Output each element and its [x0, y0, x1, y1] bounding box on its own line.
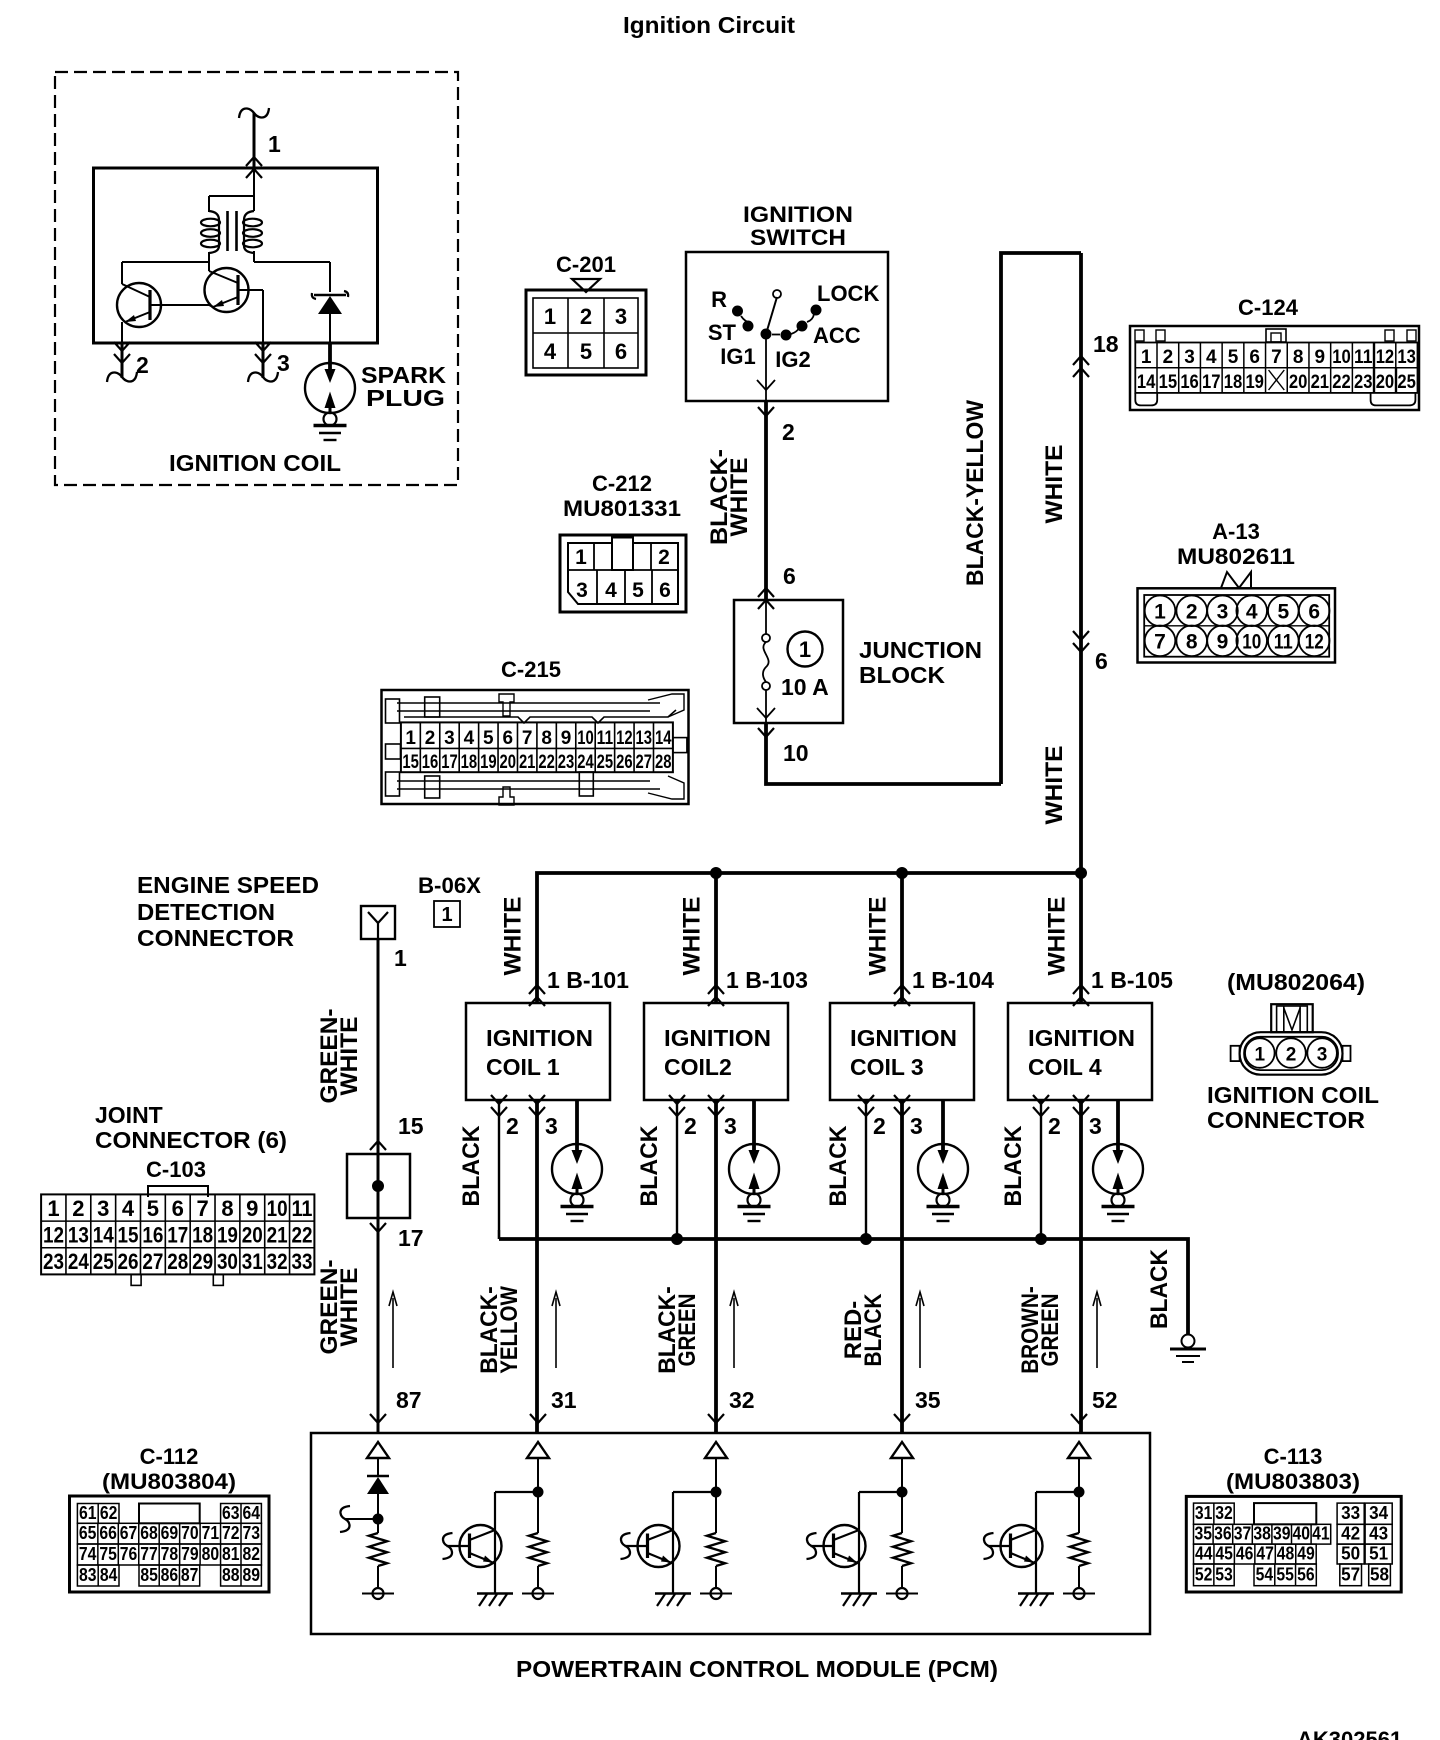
svg-text:40: 40 — [1293, 1523, 1311, 1544]
svg-text:84: 84 — [100, 1564, 118, 1585]
svg-text:12: 12 — [1305, 631, 1324, 654]
svg-text:14: 14 — [655, 728, 672, 749]
svg-text:82: 82 — [242, 1543, 260, 1564]
wire collector node bus — [122, 261, 209, 263]
svg-text:IGNITION COIL: IGNITION COIL — [169, 450, 341, 476]
svg-text:21: 21 — [519, 752, 536, 773]
C-103 bottom tabs — [131, 1274, 141, 1285]
svg-text:1 B-104: 1 B-104 — [912, 967, 994, 993]
svg-text:8: 8 — [1293, 347, 1304, 368]
transformer secondary winding — [244, 211, 254, 220]
C-215 top latch detail — [397, 702, 660, 704]
svg-text:15: 15 — [402, 752, 419, 773]
switch contact IG2 — [781, 330, 791, 340]
svg-text:33: 33 — [291, 1249, 312, 1274]
svg-text:C-103: C-103 — [146, 1157, 206, 1182]
junction dot bus/coil4 — [1076, 868, 1087, 879]
A-13 pointer M symbol — [1221, 572, 1251, 588]
wire primary bottom to collector node — [208, 252, 210, 271]
ignition coil inner box — [94, 168, 378, 343]
PCM terminal circle (35) — [901, 1566, 903, 1588]
svg-text:10: 10 — [577, 728, 594, 749]
spark plug for COIL 4 — [1116, 1100, 1120, 1150]
svg-text:77: 77 — [140, 1543, 158, 1564]
PCM diode (87 branch) — [377, 1458, 379, 1477]
svg-text:87: 87 — [181, 1564, 199, 1585]
svg-text:AK302561: AK302561 — [1297, 1727, 1402, 1740]
svg-text:16: 16 — [142, 1223, 163, 1248]
svg-text:31: 31 — [551, 1387, 577, 1413]
svg-text:BLACK: BLACK — [825, 1125, 852, 1207]
svg-text:52: 52 — [1092, 1387, 1118, 1413]
svg-text:67: 67 — [120, 1522, 138, 1543]
ignition coil detail dashed enclosure — [55, 72, 458, 485]
svg-text:12: 12 — [616, 728, 633, 749]
wire WHITE feed down right side — [1079, 253, 1083, 873]
svg-text:51: 51 — [1369, 1543, 1388, 1564]
svg-text:18: 18 — [1224, 372, 1243, 393]
switch contact LOCK — [811, 305, 821, 315]
svg-text:61: 61 — [79, 1502, 97, 1523]
svg-text:3: 3 — [1317, 1045, 1328, 1066]
svg-text:C-124: C-124 — [1238, 295, 1299, 320]
PCM terminal circle (31) — [537, 1566, 539, 1588]
flow arrow (35) — [919, 1298, 921, 1368]
svg-text:5: 5 — [580, 339, 592, 364]
svg-text:2: 2 — [1186, 601, 1198, 624]
svg-text:2: 2 — [72, 1196, 84, 1221]
svg-text:2: 2 — [658, 546, 670, 569]
svg-text:80: 80 — [202, 1543, 220, 1564]
svg-text:4: 4 — [605, 579, 617, 602]
svg-text:3: 3 — [545, 1113, 558, 1139]
svg-text:WHITE: WHITE — [1044, 897, 1071, 976]
svg-text:54: 54 — [1256, 1563, 1274, 1584]
svg-text:1: 1 — [1141, 347, 1152, 368]
svg-text:WHITE: WHITE — [336, 1017, 363, 1096]
svg-text:WHITE: WHITE — [1041, 746, 1068, 825]
Q1 base line from Q2 emitter — [150, 304, 209, 306]
svg-text:11: 11 — [597, 728, 614, 749]
wire junction block to black-yellow riser — [766, 723, 1001, 784]
PCM terminal circle (87) — [377, 1566, 379, 1588]
joint connector exit chevron — [370, 1223, 386, 1232]
pin 1 chevrons — [246, 157, 262, 166]
svg-text:43: 43 — [1369, 1523, 1388, 1544]
svg-text:31: 31 — [1195, 1502, 1213, 1523]
svg-text:IGNITION: IGNITION — [664, 1025, 771, 1051]
svg-text:1 B-105: 1 B-105 — [1091, 967, 1173, 993]
Q2 base line to pin 3 — [238, 289, 263, 291]
svg-text:3: 3 — [1217, 601, 1229, 624]
transistor Q1 — [117, 283, 161, 327]
svg-text:23: 23 — [43, 1249, 64, 1274]
svg-text:86: 86 — [161, 1564, 179, 1585]
svg-text:56: 56 — [1297, 1563, 1315, 1584]
svg-text:8: 8 — [221, 1196, 233, 1221]
PCM entry chevron (87) — [370, 1414, 386, 1423]
C-215 side tabs — [386, 744, 401, 759]
C-124 pin 18 inline connector chevrons — [1073, 356, 1089, 365]
PCM input triangle (32) — [705, 1442, 727, 1458]
ignition coil connector body — [1240, 1032, 1343, 1075]
COIL 1 pin 2 wire (BLACK) — [498, 1100, 500, 1239]
svg-text:IGNITION: IGNITION — [743, 202, 853, 227]
svg-text:76: 76 — [120, 1543, 138, 1564]
svg-text:32: 32 — [267, 1249, 288, 1274]
svg-text:COIL 4: COIL 4 — [1028, 1054, 1102, 1080]
engine speed detection connector symbol — [361, 906, 395, 939]
svg-text:53: 53 — [1215, 1563, 1233, 1584]
svg-text:6: 6 — [615, 339, 627, 364]
junction block box — [734, 600, 843, 723]
PCM terminal circle (32) — [715, 1566, 717, 1588]
svg-text:BLACK-YELLOW: BLACK-YELLOW — [962, 400, 989, 586]
svg-text:10: 10 — [1242, 631, 1261, 654]
wire GREEN-WHITE from engine speed connector — [377, 939, 380, 1154]
svg-text:2: 2 — [782, 419, 795, 445]
junction dot (31 branch) — [533, 1487, 543, 1497]
transistor (31 branch) — [460, 1525, 502, 1567]
pin 3 lead — [262, 343, 265, 378]
svg-text:ACC: ACC — [813, 323, 861, 348]
svg-text:5: 5 — [483, 728, 494, 749]
svg-text:50: 50 — [1341, 1543, 1360, 1564]
svg-text:41: 41 — [1312, 1523, 1330, 1544]
svg-text:27: 27 — [142, 1249, 163, 1274]
flow arrow (87) — [392, 1298, 394, 1368]
svg-text:IGNITION COIL: IGNITION COIL — [1207, 1082, 1379, 1108]
svg-text:3: 3 — [576, 579, 588, 602]
svg-text:9: 9 — [561, 728, 572, 749]
B-06X box 1 — [434, 901, 460, 927]
A-13 pin 6 inline connector chevrons — [1073, 631, 1089, 640]
junction dot coil3 black — [861, 1234, 872, 1245]
svg-text:COIL2: COIL2 — [664, 1054, 732, 1080]
svg-text:BLACK: BLACK — [1000, 1125, 1027, 1207]
COIL 4 pin 3 wire — [1079, 1100, 1083, 1433]
junction dot bus/coil3 — [897, 868, 908, 879]
svg-text:85: 85 — [140, 1564, 158, 1585]
spark plug for COIL2 — [752, 1100, 756, 1150]
resistor (52 branch) — [1070, 1533, 1088, 1566]
svg-text:(MU803804): (MU803804) — [102, 1469, 236, 1494]
svg-text:5: 5 — [147, 1196, 159, 1221]
svg-text:IG1: IG1 — [720, 344, 755, 369]
svg-text:18: 18 — [1093, 331, 1119, 357]
svg-text:31: 31 — [242, 1249, 263, 1274]
svg-text:17: 17 — [441, 752, 458, 773]
svg-text:20: 20 — [1376, 372, 1395, 393]
svg-text:6: 6 — [172, 1196, 184, 1221]
fuse 1 10A — [765, 600, 767, 634]
svg-text:2: 2 — [506, 1113, 519, 1139]
switch contact ST — [743, 321, 753, 331]
zener diode — [312, 293, 316, 299]
svg-text:23: 23 — [558, 752, 575, 773]
svg-text:3: 3 — [97, 1196, 109, 1221]
ignition coil box COIL 3 — [894, 985, 910, 994]
svg-text:1: 1 — [1255, 1045, 1266, 1066]
svg-text:25: 25 — [1397, 372, 1416, 393]
svg-text:A-13: A-13 — [1212, 519, 1260, 544]
svg-text:62: 62 — [100, 1502, 118, 1523]
svg-text:BLACK: BLACK — [860, 1293, 887, 1367]
svg-text:BLOCK: BLOCK — [859, 662, 945, 688]
svg-text:3: 3 — [277, 350, 290, 376]
COIL 4 pin 2 wire (BLACK) — [1040, 1100, 1042, 1239]
svg-text:19: 19 — [480, 752, 497, 773]
svg-text:3: 3 — [615, 304, 627, 329]
resistor (31 branch) — [529, 1533, 547, 1566]
wire BLACK ground bus — [499, 1239, 1188, 1334]
svg-text:38: 38 — [1253, 1523, 1271, 1544]
connector C-212 body — [560, 535, 686, 612]
switch contact ACC — [797, 321, 807, 331]
svg-text:2: 2 — [684, 1113, 697, 1139]
svg-text:65: 65 — [79, 1522, 97, 1543]
joint connector box — [347, 1154, 410, 1218]
svg-text:35: 35 — [915, 1387, 941, 1413]
svg-text:23: 23 — [1354, 372, 1373, 393]
svg-text:24: 24 — [68, 1249, 90, 1274]
svg-text:2: 2 — [580, 304, 592, 329]
svg-text:28: 28 — [167, 1249, 188, 1274]
connector C-113 body — [1186, 1496, 1401, 1592]
svg-text:81: 81 — [222, 1543, 240, 1564]
svg-text:ENGINE SPEED: ENGINE SPEED — [137, 872, 319, 898]
PCM terminal circle (52) — [1078, 1566, 1080, 1588]
svg-text:6: 6 — [1095, 648, 1108, 674]
svg-text:13: 13 — [68, 1223, 89, 1248]
fuse number circled 1 — [788, 632, 823, 667]
svg-text:12: 12 — [43, 1223, 64, 1248]
svg-text:C-112: C-112 — [140, 1444, 199, 1469]
svg-text:39: 39 — [1273, 1523, 1291, 1544]
wire WHITE drop to coil 2 — [714, 873, 718, 1003]
svg-text:35: 35 — [1195, 1523, 1213, 1544]
switch lever with pivot — [766, 297, 777, 334]
svg-text:2: 2 — [1286, 1045, 1297, 1066]
svg-text:WHITE: WHITE — [500, 897, 527, 976]
svg-text:30: 30 — [217, 1249, 238, 1274]
svg-text:15: 15 — [118, 1223, 139, 1248]
junction dot coil2 black — [672, 1234, 683, 1245]
svg-text:37: 37 — [1234, 1523, 1252, 1544]
svg-text:63: 63 — [222, 1502, 240, 1523]
spark plug for COIL 3 — [941, 1100, 945, 1150]
transformer primary winding — [209, 211, 219, 220]
svg-text:BLACK: BLACK — [458, 1125, 485, 1207]
junction dot bus/coil2 — [711, 868, 722, 879]
svg-text:48: 48 — [1277, 1543, 1295, 1564]
PCM entry chevron (31) — [530, 1414, 546, 1423]
svg-text:JUNCTION: JUNCTION — [859, 637, 982, 663]
svg-text:1: 1 — [1154, 601, 1166, 624]
C-124 top tabs — [1135, 330, 1144, 341]
svg-text:C-201: C-201 — [556, 252, 616, 277]
svg-text:15: 15 — [1159, 372, 1178, 393]
connector C-215 body — [382, 690, 689, 804]
svg-text:B-06X: B-06X — [418, 873, 481, 898]
svg-text:83: 83 — [79, 1564, 97, 1585]
C-124 bottom feet — [1135, 393, 1157, 406]
Q1 emitter wire to pin 2 — [121, 322, 123, 343]
svg-text:WHITE: WHITE — [336, 1268, 363, 1347]
svg-text:5: 5 — [632, 579, 644, 602]
transformer core — [226, 211, 229, 251]
svg-text:15: 15 — [398, 1113, 424, 1139]
svg-text:79: 79 — [181, 1543, 199, 1564]
base curl (31 branch) — [447, 1545, 470, 1547]
svg-text:10 A: 10 A — [781, 674, 829, 700]
svg-text:20: 20 — [500, 752, 517, 773]
svg-text:58: 58 — [1370, 1563, 1389, 1584]
emitter ground (52 branch) — [1018, 1592, 1054, 1594]
svg-text:11: 11 — [291, 1196, 312, 1221]
svg-text:22: 22 — [291, 1223, 312, 1248]
flow arrow (31) — [555, 1298, 557, 1368]
svg-text:1 B-101: 1 B-101 — [547, 967, 629, 993]
transistor (32 branch) — [638, 1525, 680, 1567]
svg-text:3: 3 — [910, 1113, 923, 1139]
svg-text:IGNITION: IGNITION — [850, 1025, 957, 1051]
ignition coil connector top tab — [1271, 1004, 1313, 1032]
C-215 bottom latch detail — [397, 780, 650, 782]
flow arrow (32) — [733, 1298, 735, 1368]
svg-text:BLACK: BLACK — [636, 1125, 663, 1207]
svg-text:73: 73 — [242, 1522, 260, 1543]
svg-text:36: 36 — [1214, 1523, 1232, 1544]
svg-text:4: 4 — [122, 1196, 135, 1221]
COIL 3 pin 3 wire — [900, 1100, 904, 1433]
svg-text:CONNECTOR: CONNECTOR — [137, 925, 294, 951]
collector link (35 branch) — [859, 1491, 902, 1493]
svg-text:6: 6 — [659, 579, 671, 602]
C-124 heavy dividers — [1373, 343, 1375, 393]
PCM entry chevron (52) — [1071, 1414, 1087, 1423]
wire WHITE distribution bus — [537, 873, 1081, 1003]
svg-text:17: 17 — [1202, 372, 1221, 393]
C-103 bracket — [148, 1186, 208, 1197]
svg-text:11: 11 — [1354, 347, 1373, 368]
svg-text:WHITE: WHITE — [1041, 445, 1068, 524]
flow arrow (52) — [1096, 1298, 1098, 1368]
base curl (35 branch) — [811, 1545, 834, 1547]
svg-text:12: 12 — [1376, 347, 1395, 368]
ignition coil connector pins 1 2 3 — [1245, 1038, 1275, 1068]
svg-text:MU802611: MU802611 — [1177, 544, 1295, 569]
svg-text:34: 34 — [1369, 1502, 1389, 1523]
resistor (35 branch) — [893, 1533, 911, 1566]
svg-text:19: 19 — [1245, 372, 1264, 393]
svg-text:3: 3 — [724, 1113, 737, 1139]
svg-text:(MU803803): (MU803803) — [1226, 1469, 1360, 1494]
junction block exit chevron — [758, 728, 774, 737]
svg-text:JOINT: JOINT — [95, 1102, 163, 1128]
svg-text:IGNITION: IGNITION — [486, 1025, 593, 1051]
svg-text:16: 16 — [422, 752, 439, 773]
svg-text:10: 10 — [267, 1196, 288, 1221]
connector C-103 grid — [41, 1194, 314, 1274]
svg-text:3: 3 — [1089, 1113, 1102, 1139]
svg-text:GREEN: GREEN — [674, 1294, 701, 1367]
svg-text:47: 47 — [1256, 1543, 1274, 1564]
spark plug for COIL 1 — [575, 1100, 579, 1150]
svg-text:C-215: C-215 — [501, 657, 561, 682]
svg-text:11: 11 — [1274, 631, 1293, 654]
svg-text:MU801331: MU801331 — [563, 496, 681, 521]
svg-text:21: 21 — [1311, 372, 1330, 393]
svg-text:1: 1 — [394, 945, 407, 971]
svg-text:87: 87 — [396, 1387, 422, 1413]
PCM input triangle (35) — [891, 1442, 913, 1458]
svg-text:69: 69 — [161, 1522, 179, 1543]
svg-text:1: 1 — [441, 904, 452, 926]
svg-text:8: 8 — [541, 728, 552, 749]
svg-text:33: 33 — [1341, 1502, 1360, 1523]
emitter ground (32 branch) — [655, 1592, 691, 1594]
svg-text:PLUG: PLUG — [366, 385, 445, 411]
svg-text:28: 28 — [655, 752, 672, 773]
wire ignition switch to junction block (BLACK-WHITE) — [758, 407, 774, 416]
PCM entry chevron (32) — [708, 1414, 724, 1423]
svg-text:75: 75 — [99, 1543, 117, 1564]
svg-text:20: 20 — [242, 1223, 263, 1248]
svg-text:6: 6 — [502, 728, 513, 749]
junction dot (52 branch) — [1074, 1487, 1084, 1497]
svg-text:2: 2 — [1163, 347, 1174, 368]
A-13 pin circles — [1145, 596, 1176, 627]
svg-text:57: 57 — [1341, 1563, 1360, 1584]
COIL 1 pin 3 wire — [535, 1100, 539, 1433]
svg-text:1 B-103: 1 B-103 — [726, 967, 808, 993]
ignition coil box COIL 4 — [1073, 985, 1089, 994]
wire GREEN-WHITE to PCM — [377, 1218, 380, 1433]
svg-text:24: 24 — [577, 752, 594, 773]
svg-text:LOCK: LOCK — [817, 281, 879, 306]
connector C-112 body — [70, 1496, 270, 1592]
junction dot (87 branch) — [373, 1514, 383, 1524]
svg-text:74: 74 — [79, 1543, 97, 1564]
svg-text:44: 44 — [1195, 1543, 1213, 1564]
svg-text:4: 4 — [1246, 601, 1258, 624]
svg-text:IGNITION: IGNITION — [1028, 1025, 1135, 1051]
wire pin1 to transformer — [253, 168, 255, 211]
svg-text:32: 32 — [1215, 1502, 1233, 1523]
PCM input triangle (52) — [1068, 1442, 1090, 1458]
svg-text:DETECTION: DETECTION — [137, 899, 275, 925]
svg-text:27: 27 — [636, 752, 653, 773]
svg-text:POWERTRAIN CONTROL MODULE (PCM: POWERTRAIN CONTROL MODULE (PCM) — [516, 1656, 998, 1682]
svg-text:49: 49 — [1297, 1543, 1315, 1564]
svg-text:26: 26 — [616, 752, 633, 773]
wire BLACK-YELLOW riser — [1001, 253, 1081, 784]
zener wire down — [329, 314, 331, 343]
ignition switch box — [686, 252, 888, 401]
svg-text:GREEN: GREEN — [1037, 1294, 1064, 1367]
svg-text:7: 7 — [1154, 631, 1166, 654]
ignition coil box COIL2 — [708, 985, 724, 994]
svg-text:16: 16 — [1180, 372, 1199, 393]
svg-text:2: 2 — [136, 352, 149, 378]
svg-text:4: 4 — [464, 728, 475, 749]
svg-text:10: 10 — [783, 740, 809, 766]
junction dot (32 branch) — [711, 1487, 721, 1497]
svg-text:9: 9 — [1315, 347, 1326, 368]
junction dot coil4 black — [1036, 1234, 1047, 1245]
svg-text:26: 26 — [118, 1249, 139, 1274]
